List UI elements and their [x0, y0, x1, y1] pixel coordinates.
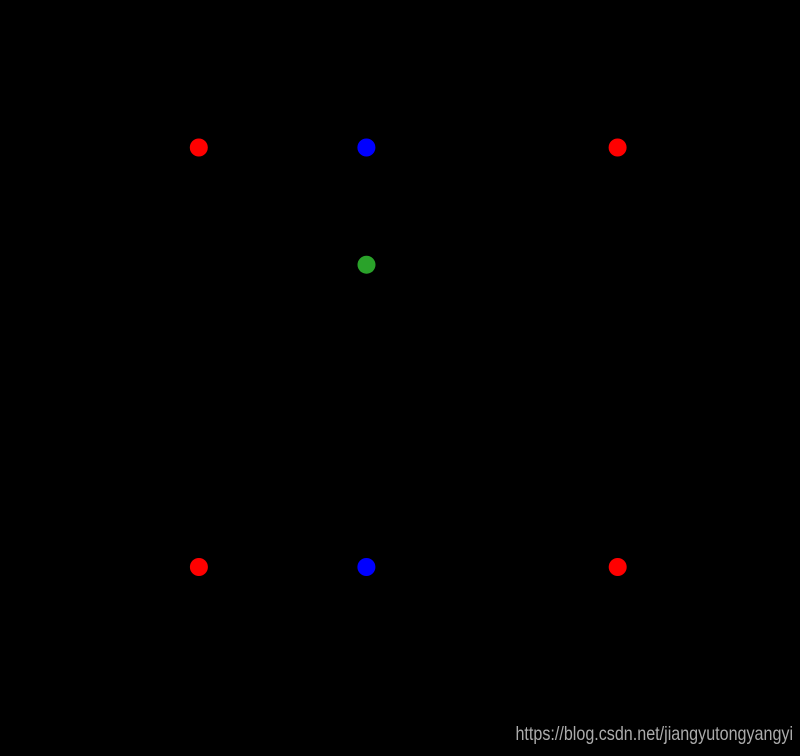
point P4 (green, center) [358, 256, 376, 274]
point P6 (blue, bottom-middle) [357, 558, 375, 576]
point P1 (red, top-left) [190, 139, 208, 157]
point P3 (red, top-right) [609, 139, 627, 157]
point P7 (red, bottom-right) [609, 558, 627, 576]
point P5 (red, bottom-left) [190, 558, 208, 576]
watermark text [516, 723, 794, 746]
point P2 (blue, top-middle) [357, 139, 375, 157]
